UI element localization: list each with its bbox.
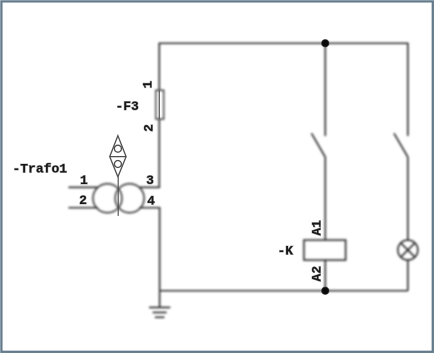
svg-text:-F3: -F3 [115,99,139,114]
svg-text:2: 2 [142,124,157,132]
relay coil K [304,240,346,260]
svg-text:1: 1 [141,81,156,89]
wire Trafo1 pin 1 lead [68,186,98,188]
wire contact to coil A1 [324,157,326,240]
svg-text:-K: -K [277,243,293,258]
wire Trafo1 pin 4 to bottom rail [139,208,159,291]
node junction bottom rail [321,287,329,295]
wire fuse branch upper [158,43,160,91]
transformer Trafo1 core center line [117,177,119,216]
lamp [398,240,418,260]
contact switch in K branch [311,133,325,157]
svg-text:4: 4 [147,193,155,208]
wire top rail [159,42,408,44]
wire Trafo1 pin 2 lead [68,207,98,209]
svg-text:3: 3 [146,173,154,188]
svg-text:A1: A1 [309,220,324,236]
ground [149,291,170,318]
wire top rail right drop to lamp contact [407,43,409,136]
transformer Trafo1 [93,184,144,213]
wire top rail to contact of K branch [324,43,326,136]
svg-text:1: 1 [80,173,88,188]
contact switch in lamp branch [394,133,408,157]
node junction top rail [321,39,329,47]
wire lamp to bottom rail [407,260,409,291]
fuse F3 internal wire [158,90,160,119]
svg-text:2: 2 [79,193,87,208]
svg-text:-Trafo1: -Trafo1 [12,161,67,176]
fuse F3 [156,90,164,119]
wire contact to lamp [407,157,409,240]
wire fuse to transformer pin 3 [139,119,159,187]
wire bottom rail [160,290,408,292]
svg-text:A2: A2 [309,266,324,282]
wire coil A2 to bottom rail [324,260,326,291]
symbol voltage-indicator diamond above Trafo1 [110,136,126,177]
